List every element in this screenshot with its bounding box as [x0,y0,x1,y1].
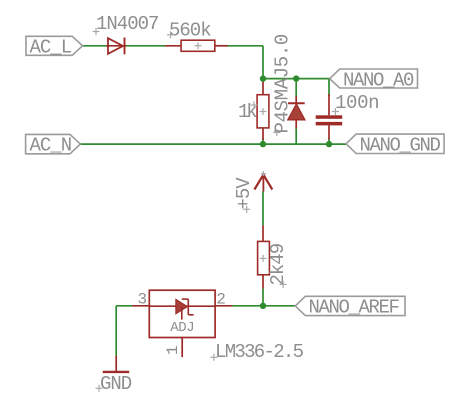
power symbol +5V [254,175,272,192]
wire node to NANO_A0 [263,78,330,80]
origin cross 560k box [195,42,202,49]
origin cross GND text [96,385,103,392]
origin cross 100n text [332,108,339,115]
wire AREF node to NANO_AREF [263,305,295,307]
wire 2k49 to AREF node [262,289,264,306]
origin cross 2k49 box [260,255,267,262]
junction node rail at 1k [260,141,266,147]
label ADJ [170,320,194,336]
label 100n [335,92,379,114]
junction node rail at cap [326,141,332,147]
pin 2 lead [215,305,232,307]
svg-text:GND: GND [100,373,132,395]
IC U1 LM336-2.5 [149,290,215,337]
label 1k [238,101,257,123]
junction node AREF [260,303,266,309]
origin cross 2k49 text [280,281,287,288]
svg-text:LM336-2.5: LM336-2.5 [215,341,304,363]
origin cross LM336 text [210,354,217,361]
wire TVS bottom [295,128,297,145]
flag NANO_A0 [330,69,418,91]
origin cross 1k box [260,108,267,115]
svg-text:100n: 100n [335,92,379,114]
flag AC_L [26,36,83,58]
svg-text:1N4007: 1N4007 [96,13,158,35]
origin cross 1k text [251,102,258,109]
label P4SMAJ5.0 (vertical) [272,34,294,133]
resistor R 560k [165,40,228,51]
origin cross +5V text [243,206,250,213]
wire AC_L to diode [83,45,107,47]
pin number 3 [138,291,148,309]
svg-text:AC_N: AC_N [30,135,72,157]
resistor R 2k49 (vertical) [258,226,270,289]
origin cross P4SMAJ text [273,129,280,136]
label 1N4007 [96,13,158,35]
svg-text:ADJ: ADJ [170,320,194,336]
junction node top at 1k [260,75,266,81]
svg-text:2: 2 [216,291,226,309]
capacitor C 100n [316,94,343,140]
wire LM336 pin3 to GND corner [116,306,132,356]
pin 1 lead [181,338,183,358]
label +5V (vertical) [233,177,255,210]
pin number 1 (rotated) [164,345,182,355]
wire cap bottom [328,139,330,145]
origin cross 1N4007 [93,28,100,35]
wire AC_N rail [80,143,346,145]
svg-text:NANO_GND: NANO_GND [360,134,441,156]
label LM336-2.5 [215,341,304,363]
wire 560k to corner and down to node [227,46,263,79]
wire diode to 560k resistor [126,45,166,47]
origin cross 560k text [167,31,174,38]
svg-text:560k: 560k [169,20,211,42]
pin 3 lead [132,305,149,307]
svg-text:2k49: 2k49 [267,243,289,285]
ground symbol GND [103,356,130,372]
wire TVS top branch [295,79,297,97]
flag NANO_AREF [295,296,405,318]
svg-text:1: 1 [164,345,182,355]
wire 1k bottom [262,138,264,144]
flag NANO_GND [346,134,444,156]
flag AC_N [26,134,81,156]
wire cap top branch [328,79,330,96]
label 2k49 (vertical) [267,243,289,285]
svg-text:P4SMAJ5.0: P4SMAJ5.0 [272,34,294,133]
svg-text:+5V: +5V [233,177,255,210]
junction node top at TVS [293,75,299,81]
label 560k [169,20,211,42]
pin number 2 [216,291,226,309]
label GND [100,373,132,395]
svg-text:NANO_AREF: NANO_AREF [309,296,400,318]
origin cross +5V symbol [261,171,266,176]
svg-text:3: 3 [138,291,148,309]
TVS diode P4SMAJ5.0 [288,96,305,129]
wire +5V to 2k49 [262,191,264,225]
resistor R 1k (vertical) [257,79,269,140]
svg-text:NANO_A0: NANO_A0 [343,69,414,91]
wire LM336 pin2 to AREF node [232,305,263,307]
diode D1 1N4007 [106,38,126,55]
svg-text:AC_L: AC_L [30,37,72,59]
